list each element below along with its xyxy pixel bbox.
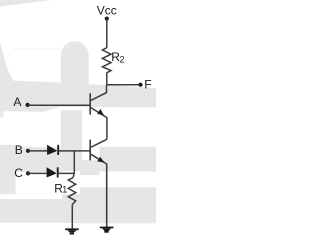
wire Vcc to R2 xyxy=(106,19,108,48)
svg-text:1: 1 xyxy=(62,184,67,194)
svg-text:C: C xyxy=(14,166,23,180)
ground right xyxy=(100,227,114,233)
watermark wedge top-left xyxy=(0,0,52,7)
svg-text:A: A xyxy=(13,95,21,109)
transistor Q1 collector wire xyxy=(91,85,107,101)
transistor Q2 base bar xyxy=(89,140,91,161)
wire junction B-C vertical xyxy=(73,151,75,174)
node C dot xyxy=(26,171,30,175)
transistor Q2 emitter with arrow xyxy=(91,154,107,164)
ground left xyxy=(65,228,79,234)
watermark left-mid block xyxy=(0,145,16,194)
node A dot xyxy=(26,103,30,107)
watermark rounded bar xyxy=(61,41,89,84)
Vcc terminal dot xyxy=(105,17,109,21)
svg-text:Vcc: Vcc xyxy=(97,4,117,18)
resistor R2 xyxy=(102,48,111,73)
watermark right block xyxy=(100,147,157,172)
watermark faint line xyxy=(13,49,61,51)
watermark column xyxy=(61,110,83,171)
wire node to F xyxy=(106,84,141,86)
transistor Q2 collector wire xyxy=(91,139,107,147)
watermark left crescent xyxy=(0,43,14,81)
wire R1 to ground xyxy=(71,205,73,229)
transistor Q1 base bar xyxy=(89,93,91,114)
wire Q2 emitter to ground xyxy=(106,164,108,228)
svg-text:2: 2 xyxy=(120,55,125,65)
wire R2 to F node xyxy=(106,73,108,85)
wire D2 to junction xyxy=(58,172,75,174)
wire B to diode D1 xyxy=(28,150,47,152)
wire D1 to Q2 base xyxy=(58,150,90,152)
wire A to Q1 base xyxy=(28,104,91,106)
node F dot xyxy=(138,83,142,87)
resistor R1 xyxy=(68,178,75,205)
wire C to diode D2 xyxy=(28,172,47,174)
diode D2 (input C) xyxy=(47,167,57,177)
transistor Q1 emitter with arrow xyxy=(91,108,107,118)
svg-text:F: F xyxy=(144,78,151,92)
watermark bottom band xyxy=(0,187,156,223)
svg-text:B: B xyxy=(15,143,23,157)
node B dot xyxy=(26,149,30,153)
diode D1 (input B) xyxy=(47,145,57,155)
wire junction to R1 xyxy=(73,173,74,177)
wire Q1 emitter to Q2 collector xyxy=(106,117,108,139)
watermark left tail xyxy=(0,111,4,117)
watermark mid blob xyxy=(80,160,100,175)
watermark main band xyxy=(0,80,156,112)
